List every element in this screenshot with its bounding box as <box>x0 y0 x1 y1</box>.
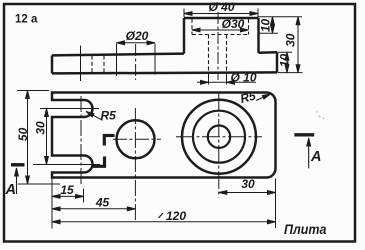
slot end projection line <box>80 46 82 82</box>
dimension 10 thickness <box>286 52 288 72</box>
dimension 45 <box>52 208 135 210</box>
small circle horizontal centerline <box>113 138 161 140</box>
extension line left edge <box>51 179 53 229</box>
dimension 15 <box>52 195 84 197</box>
dim 10 counterbore depth top extension <box>259 16 303 18</box>
hole D10 circle <box>208 126 230 148</box>
svg-text:45: 45 <box>95 195 110 209</box>
dim D10 right extension <box>226 74 228 85</box>
hole 20 right extension <box>154 44 156 75</box>
boss right edge <box>257 18 260 53</box>
section arrow right <box>308 139 310 168</box>
small circle vertical centerline <box>134 108 136 222</box>
leader R5 right <box>256 94 271 101</box>
svg-text:A: A <box>5 182 16 198</box>
svg-text:R5: R5 <box>101 109 117 123</box>
scan specks <box>316 111 327 119</box>
top slot axis centerline <box>40 108 99 110</box>
dim 15 right extension <box>83 189 85 203</box>
svg-text:Ø 40: Ø 40 <box>208 0 234 14</box>
svg-text:15: 15 <box>60 183 74 197</box>
hidden line section step <box>103 56 105 74</box>
svg-text:Ø 10: Ø 10 <box>230 70 256 84</box>
dimension D20 <box>117 42 156 44</box>
svg-text:Плита: Плита <box>284 221 327 237</box>
svg-text:30: 30 <box>241 177 255 191</box>
plate body right top edge <box>259 51 278 54</box>
plate right edge <box>276 52 279 72</box>
hole 20 centerline <box>135 44 137 80</box>
dimension D40 extension left <box>183 9 185 18</box>
svg-text:50: 50 <box>16 127 30 141</box>
dim 10 counterbore depth bottom extension <box>259 32 278 34</box>
dim 10 thickness top extension <box>278 51 293 53</box>
dimension D10 <box>197 81 256 83</box>
leader R5 left <box>86 112 103 121</box>
dimension D40 <box>184 13 258 15</box>
svg-text:30: 30 <box>284 33 298 47</box>
big circle vertical centerline <box>218 93 220 198</box>
dim D10 left extension <box>208 74 210 85</box>
dimension 120 <box>52 221 276 223</box>
hole centerline <box>217 12 219 80</box>
dimension 50 <box>27 91 29 185</box>
dimension D30 <box>192 29 249 31</box>
svg-text:10: 10 <box>278 54 292 68</box>
big circle horizontal centerline <box>176 136 262 138</box>
plate left edge <box>51 55 54 73</box>
counterbore D30 hidden left wall <box>191 19 193 35</box>
counterbore D30 hidden right wall <box>248 19 250 35</box>
hole D10 hidden right wall <box>226 35 228 73</box>
svg-text:Ø30: Ø30 <box>222 17 245 31</box>
dim 30 bottom extension <box>278 72 303 74</box>
dimension 30 left <box>46 109 48 165</box>
hole 20 left extension <box>116 44 118 77</box>
dimension 30 height <box>297 17 299 73</box>
plate body left top edge <box>52 54 184 56</box>
dimension 30 bottom right <box>219 192 276 194</box>
dimension D40 extension right <box>257 9 259 18</box>
hole D20 circle <box>117 120 155 158</box>
hole D10 hidden left wall <box>208 35 210 73</box>
bottom slot axis centerline <box>33 164 100 166</box>
svg-text:120: 120 <box>166 209 186 223</box>
plate bottom edge <box>52 72 277 73</box>
boss top edge <box>184 17 259 20</box>
dimension 10 counterbore depth <box>272 17 274 34</box>
svg-text:Ø20: Ø20 <box>126 29 149 43</box>
section plane left stroke <box>11 163 25 166</box>
section plane right stroke <box>294 133 314 136</box>
svg-text:A: A <box>310 149 321 165</box>
boss left edge <box>183 18 186 54</box>
plate outline with slots <box>52 93 276 178</box>
section arrow left <box>16 169 18 194</box>
stray tick before 120 <box>159 213 164 218</box>
hidden line slot end <box>91 56 93 74</box>
section step upper bend stroke <box>103 134 115 137</box>
counterbore D30 hidden bottom <box>192 34 249 36</box>
svg-text:10: 10 <box>259 19 273 33</box>
boss D40 circle <box>182 100 256 174</box>
dim 50 bottom extension <box>18 183 60 185</box>
svg-text:R5: R5 <box>239 89 258 106</box>
extension line right edge <box>275 179 277 229</box>
section step lower bend stroke <box>93 165 107 168</box>
svg-text:30: 30 <box>34 121 48 135</box>
slot end vertical centerline <box>80 96 82 185</box>
svg-text:12 a: 12 a <box>15 13 38 25</box>
counterbore D30 circle <box>193 111 245 163</box>
dim 50 top extension <box>17 90 49 92</box>
